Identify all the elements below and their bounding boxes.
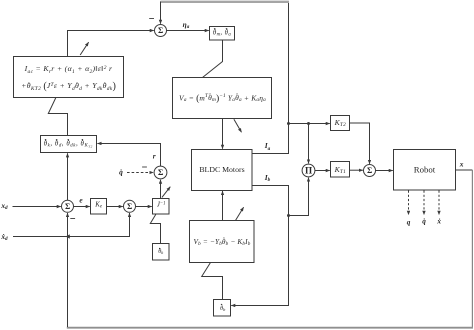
wire: Iac box output up and right into top sum [68, 31, 154, 57]
box theta_m theta_a adaptation [210, 27, 235, 41]
junction dot Ib branch [287, 214, 290, 217]
label x out [460, 160, 464, 167]
minus sign at top sum [149, 18, 154, 20]
label J inverse [157, 203, 166, 210]
formula theta_b [220, 305, 225, 311]
sum circle right [364, 165, 376, 177]
wire: e from e-sum to Ke [74, 206, 90, 208]
wire: sum2 to J inverse [136, 206, 152, 208]
label eta_a [183, 20, 190, 28]
label Ia [265, 142, 270, 150]
box Robot [394, 150, 456, 191]
formula Va [179, 94, 266, 104]
wire: Ia from BLDC right up to junction [252, 124, 289, 154]
wire: Robot x output vertical at right edge (grey) [471, 170, 473, 328]
wire: bottom feedback horizontal (grey) [67, 327, 473, 329]
wire: top feedback vertical from Ia junction [288, 2, 290, 124]
wire: x_d input into e-sum [13, 206, 61, 208]
wire: Ia junction right into KT2 [289, 123, 330, 125]
wire: Vb output up into BLDC Motors bottom [222, 191, 224, 221]
formula theta_m theta_a [213, 30, 231, 37]
wire: KT1 to right sum [350, 169, 363, 171]
box J inverse [153, 199, 170, 215]
minus sign at r sum [142, 166, 147, 168]
wire: Ke to sum2 [107, 206, 123, 208]
box Va control law [173, 78, 272, 119]
wire: e-sum up into thetadot box bottom [67, 153, 69, 200]
label BLDC Motors [199, 166, 244, 174]
wire: qdot dashed into r-sum [127, 172, 153, 174]
wire: KT2 right and down into right sum top [350, 123, 370, 164]
minus sign at e sum [70, 218, 75, 220]
box theta_b estimate [214, 300, 231, 317]
wire: Ib branch down and left into theta_b box [231, 216, 288, 306]
box Iac controller [14, 57, 124, 98]
formula thetadot box [44, 141, 93, 148]
wire: top feedback horizontal (grey, at figure edge) [161, 1, 290, 3]
arrowhead: small left arrow on xdot_d line at crossing [65, 234, 69, 238]
label xdot_d [1, 232, 7, 240]
adjust arrow on Va box [234, 119, 242, 132]
dashed robot output q [408, 191, 410, 215]
wire: zigzag from theta_m,theta_a box down to Va box [203, 40, 223, 78]
dashed robot output qdot [423, 191, 425, 215]
box KT2 gain [331, 116, 350, 131]
label: Sigma in r sum [158, 169, 163, 177]
adjust arrow on Vb box [235, 207, 243, 221]
junction dot Ia-KT2 [287, 122, 290, 125]
wire: zigzag from J inverse down to theta_k box [150, 214, 160, 244]
wire: zigzag from thetadot box up into Iac box [48, 98, 67, 136]
label: Sigma in top sum [158, 27, 163, 35]
wire: Pi to KT1 [315, 170, 330, 172]
dashed robot output xdot [438, 191, 440, 215]
sum circle top (eta_a) [155, 25, 167, 37]
box Ke gain [91, 199, 107, 215]
label x_d [1, 202, 7, 210]
label: Sigma in right sum [367, 167, 372, 175]
label r [153, 152, 156, 159]
label KT1 [335, 165, 346, 173]
label qdot [119, 168, 123, 175]
product circle Pi [302, 164, 315, 177]
junction dot Pi branch [307, 122, 310, 125]
formula theta_k [158, 249, 163, 255]
wire: J inverse up into r-sum [160, 180, 162, 199]
adjust arrow on Iac box [80, 42, 88, 55]
formula Iac [21, 61, 116, 95]
wire: bottom feedback up into e-sum [67, 213, 69, 327]
box thetadot adaptation laws [41, 136, 97, 153]
label: Pi in product [305, 166, 312, 175]
sum circle 2 [124, 200, 136, 212]
formula Vb [194, 238, 251, 246]
adjust arrow on J inverse box [162, 187, 170, 198]
label KT2 [335, 119, 346, 127]
wire: Robot x output right and down [456, 169, 473, 171]
box BLDC Motors [192, 150, 253, 191]
wire: Ib from BLDC right, down, into Pi bottom [252, 178, 309, 216]
label Robot [414, 166, 436, 175]
box Vb control law [190, 221, 255, 263]
label: Sigma in e sum [65, 203, 70, 211]
sum circle e [62, 200, 74, 212]
label: Sigma in sum2 [127, 203, 132, 211]
label xdot under robot [437, 218, 441, 225]
label qdot under robot [422, 218, 426, 225]
box KT1 gain [331, 162, 350, 178]
wire: Va output down into BLDC Motors [222, 119, 224, 149]
label Ke [95, 203, 102, 210]
wire: eta_a from top sum to theta_m,theta_a box [167, 30, 209, 32]
box theta_k estimate [153, 244, 170, 261]
wire: top feedback drop into top sum [160, 2, 162, 24]
wire: r from r-sum up and left into thetadot box [97, 144, 160, 167]
wire: zigzag from Vb box down to theta_b box [202, 263, 223, 300]
label q under robot [407, 219, 411, 226]
sum circle r [154, 166, 167, 179]
label Ib [265, 174, 270, 182]
wire: xdot_d input along bottom row up into sum2 [13, 213, 130, 237]
label e [79, 196, 82, 203]
wire: right sum to Robot [376, 170, 393, 172]
wire: branch down into Pi top [308, 124, 310, 164]
